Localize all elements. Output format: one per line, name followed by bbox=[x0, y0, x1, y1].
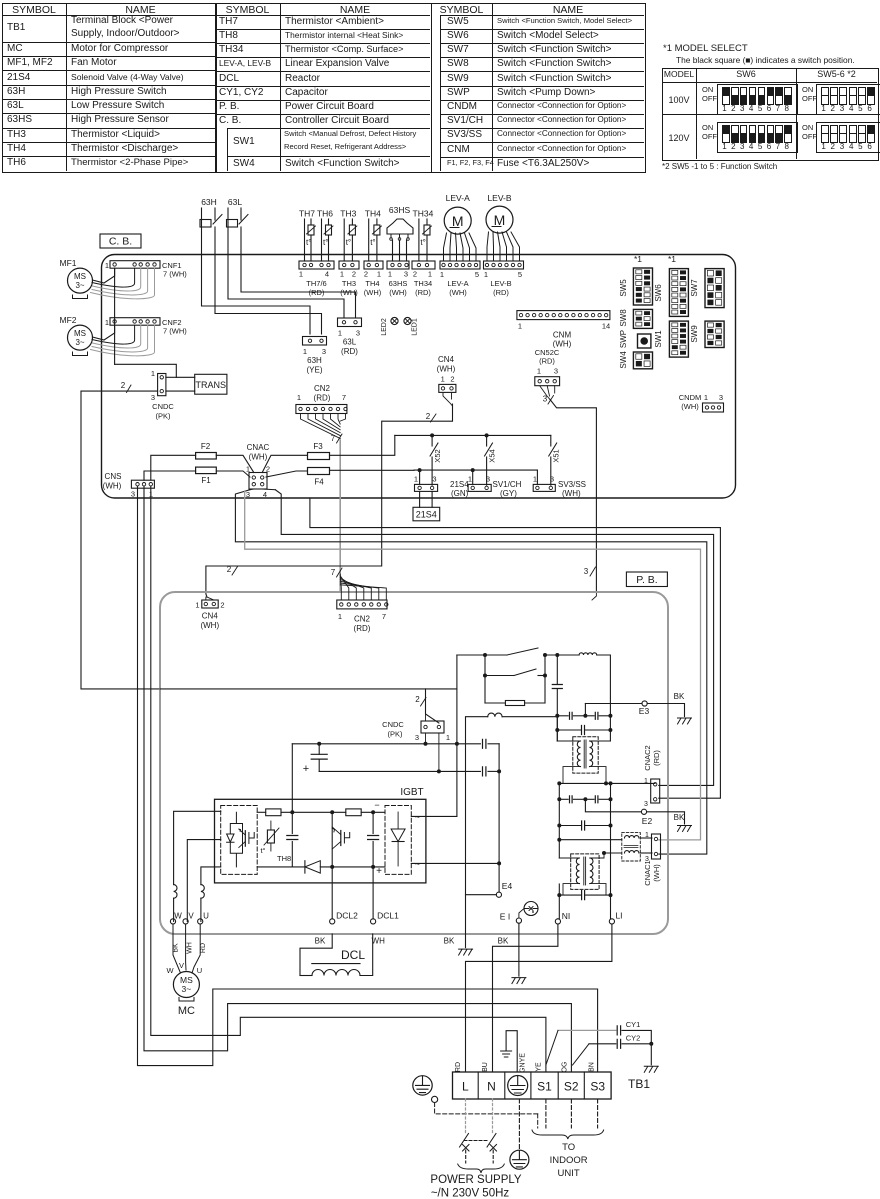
switch SW7 bbox=[690, 269, 724, 308]
svg-text:1: 1 bbox=[297, 393, 301, 402]
svg-text:YE: YE bbox=[536, 1062, 543, 1072]
wire bundle C.B. to CNAC1/CNAC2 corner bbox=[235, 490, 720, 854]
svg-text:(WH): (WH) bbox=[652, 864, 661, 882]
svg-text:3: 3 bbox=[356, 329, 360, 338]
svg-text:~/N 230V 50Hz: ~/N 230V 50Hz bbox=[431, 1188, 510, 1199]
svg-text:1: 1 bbox=[340, 270, 344, 279]
breaker switch in power supply bbox=[460, 1134, 497, 1164]
label P. B. bbox=[626, 572, 667, 587]
svg-text:1: 1 bbox=[105, 318, 109, 327]
pressure switch 63L bbox=[227, 197, 249, 255]
svg-text:DCL2: DCL2 bbox=[336, 911, 358, 921]
wire R2 to minus rail bbox=[361, 800, 385, 814]
common mode choke L3 dashed to CNAC1 bbox=[557, 833, 652, 861]
svg-text:(PK): (PK) bbox=[156, 412, 172, 421]
svg-text:WH: WH bbox=[186, 942, 193, 954]
svg-text:7: 7 bbox=[342, 393, 346, 402]
legend table group 2 bbox=[0, 0, 880, 1]
wire IGBT top rail bbox=[257, 810, 346, 814]
svg-text:63H: 63H bbox=[201, 197, 217, 207]
svg-text:INDOOR: INDOOR bbox=[550, 1155, 588, 1166]
svg-text:TH7: TH7 bbox=[299, 209, 315, 219]
GNYE earth jumper bbox=[501, 1031, 518, 1072]
wire CN52C to P.B. CN52C bbox=[540, 386, 597, 600]
connector CNM (WH) bbox=[517, 311, 610, 349]
svg-text:MF2: MF2 bbox=[60, 315, 77, 325]
wire LI to terminal L bbox=[466, 924, 612, 1072]
svg-text:LEV-B: LEV-B bbox=[487, 193, 511, 203]
capacitor C2 in IGBT bbox=[368, 812, 382, 877]
switch SW5 bbox=[619, 268, 653, 305]
controller circuit board C.B. outline bbox=[102, 255, 736, 499]
capacitor C3 across line bbox=[552, 655, 562, 716]
terminal E2 bbox=[585, 799, 652, 826]
thermistor TH7 bbox=[299, 209, 316, 262]
connector CNAC (WH) bbox=[246, 443, 270, 499]
switch SW8 bbox=[619, 309, 653, 329]
arrester symbol bbox=[524, 902, 538, 916]
power supply earth symbol bbox=[510, 1150, 529, 1169]
switch SW1 bbox=[654, 321, 688, 357]
wire 7-bundle CN2 fan down bbox=[301, 414, 346, 439]
terminal W on P.B. bbox=[170, 912, 182, 925]
svg-text:L: L bbox=[462, 1080, 469, 1094]
transformer TRANS bbox=[195, 374, 227, 394]
svg-text:63HS: 63HS bbox=[389, 279, 408, 288]
svg-text:t°: t° bbox=[323, 238, 328, 247]
svg-text:CNM: CNM bbox=[553, 331, 572, 340]
svg-text:1: 1 bbox=[388, 270, 392, 279]
svg-text:CNAC1: CNAC1 bbox=[643, 860, 652, 885]
wire CNDC pin3 to TRANS bbox=[166, 390, 195, 392]
connector 21S4 (GN) bbox=[414, 470, 469, 498]
reactor DCL bbox=[300, 934, 385, 976]
connector SV1/CH (GY) bbox=[468, 470, 522, 498]
svg-text:1: 1 bbox=[151, 369, 155, 378]
svg-text:3: 3 bbox=[246, 490, 250, 499]
svg-text:U: U bbox=[203, 912, 209, 921]
svg-text:(WH): (WH) bbox=[364, 288, 382, 297]
resistor R1 on IGBT gate rail bbox=[266, 809, 281, 816]
relay bus upper bbox=[395, 433, 551, 437]
svg-text:1: 1 bbox=[537, 367, 541, 376]
svg-text:CN2: CN2 bbox=[354, 615, 371, 624]
svg-text:SW5: SW5 bbox=[619, 279, 628, 297]
capacitor C6 across line bbox=[555, 716, 612, 735]
svg-text:2: 2 bbox=[450, 375, 454, 384]
svg-text:LED2: LED2 bbox=[381, 318, 388, 336]
dashed wires below S1 S2 S3 bbox=[546, 1099, 598, 1128]
rectifier module dashed bbox=[385, 806, 420, 875]
svg-text:3: 3 bbox=[486, 474, 490, 483]
relay contact X54 bbox=[485, 435, 497, 485]
svg-text:(YE): (YE) bbox=[307, 366, 323, 375]
svg-text:N: N bbox=[487, 1080, 496, 1094]
svg-text:3~: 3~ bbox=[75, 338, 84, 347]
svg-text:4: 4 bbox=[263, 490, 267, 499]
svg-text:(WH): (WH) bbox=[200, 621, 219, 630]
ground for E2 bbox=[678, 826, 692, 832]
svg-text:CN2: CN2 bbox=[314, 384, 331, 393]
capacitor C7 C8 Y-caps 2 bbox=[557, 796, 612, 803]
connector CNF1 (WH) bbox=[105, 261, 187, 279]
svg-text:DCL1: DCL1 bbox=[377, 911, 399, 921]
svg-text:F3: F3 bbox=[313, 442, 323, 451]
wire 63L to connector 63L(RD) bbox=[228, 255, 356, 319]
IGBT transistor Q2 bbox=[332, 812, 350, 867]
dashed earth run right side bbox=[537, 1114, 539, 1128]
svg-text:3: 3 bbox=[432, 474, 436, 483]
wire gray CN2 bundle down to P.B. bbox=[331, 434, 342, 592]
relay bus lower bbox=[414, 468, 537, 472]
wire row CNAC2 pin1 bbox=[557, 781, 655, 799]
svg-text:3: 3 bbox=[550, 474, 554, 483]
svg-text:14: 14 bbox=[602, 322, 610, 331]
svg-text:1: 1 bbox=[704, 393, 708, 402]
svg-text:BK: BK bbox=[674, 692, 685, 701]
transformer T1 dashed bbox=[557, 730, 610, 783]
svg-text:U: U bbox=[197, 966, 202, 975]
svg-text:1: 1 bbox=[446, 733, 450, 742]
switch SW9 bbox=[690, 321, 724, 347]
legend table group 1 bbox=[0, 0, 880, 1]
connector TH4 (WH) bbox=[364, 261, 383, 297]
svg-text:3: 3 bbox=[719, 393, 723, 402]
connector CN2 (RD) on P.B. bbox=[337, 574, 388, 633]
svg-text:SW7: SW7 bbox=[690, 279, 699, 297]
svg-text:BK: BK bbox=[173, 943, 180, 953]
svg-text:TH6: TH6 bbox=[317, 209, 333, 219]
terminal LI bbox=[609, 911, 622, 924]
fan motor MF2 bbox=[60, 315, 93, 356]
svg-text:1: 1 bbox=[105, 261, 109, 270]
svg-text:1: 1 bbox=[338, 329, 342, 338]
svg-text:LI: LI bbox=[615, 911, 622, 921]
wire F1 to CNAC pin1 lower bbox=[216, 471, 250, 477]
svg-text:2: 2 bbox=[426, 412, 431, 421]
terminal block TB1 bbox=[453, 1072, 651, 1099]
svg-text:RD: RD bbox=[200, 943, 207, 953]
wire CNAC pin2 to F3 F4 bbox=[262, 455, 307, 477]
svg-text:5: 5 bbox=[475, 270, 479, 279]
fuse F3 bbox=[308, 442, 330, 460]
wire CNS to fuses F1 F2 bbox=[144, 455, 196, 480]
svg-text:MS: MS bbox=[74, 329, 86, 338]
wire 63H to connector 63H(YE) bbox=[202, 255, 322, 335]
connector CN2 (RD) on C.B. bbox=[296, 384, 347, 414]
resistor R2 in IGBT bbox=[346, 809, 361, 816]
svg-text:(WH): (WH) bbox=[389, 288, 407, 297]
svg-text:(WH): (WH) bbox=[103, 482, 122, 491]
svg-text:V: V bbox=[188, 912, 194, 921]
svg-text:3: 3 bbox=[131, 490, 135, 499]
wire F2 to CNAC pin1 bbox=[216, 455, 254, 472]
svg-text:3: 3 bbox=[151, 393, 155, 402]
label *1 for SW6 bbox=[668, 254, 676, 264]
svg-text:POWER SUPPLY: POWER SUPPLY bbox=[430, 1174, 521, 1186]
svg-text:63H: 63H bbox=[307, 356, 322, 365]
switch SW4 bbox=[619, 351, 653, 369]
svg-text:t°: t° bbox=[420, 238, 425, 247]
svg-text:7 (WH): 7 (WH) bbox=[163, 327, 187, 336]
IGBT transistor Q1 bbox=[227, 812, 255, 867]
svg-text:BU: BU bbox=[482, 1062, 489, 1072]
svg-text:t°: t° bbox=[306, 238, 311, 247]
solenoid valve 21S4 box bbox=[413, 491, 440, 520]
capacitor CY2 bbox=[573, 1034, 654, 1066]
svg-text:3: 3 bbox=[543, 395, 548, 404]
inductor L1 choke bbox=[545, 653, 610, 716]
svg-text:(RD): (RD) bbox=[354, 624, 371, 633]
svg-text:(RD): (RD) bbox=[493, 288, 509, 297]
svg-text:21S4: 21S4 bbox=[450, 480, 469, 489]
terminal V on P.B. bbox=[183, 912, 194, 925]
wire 2-bundle CNDC to left bbox=[81, 391, 160, 689]
IGBT drive module dashed bbox=[221, 806, 258, 875]
svg-text:3: 3 bbox=[554, 367, 558, 376]
ground for CY capacitors bbox=[644, 1044, 658, 1073]
svg-text:LEV-B: LEV-B bbox=[490, 279, 511, 288]
svg-text:E I: E I bbox=[500, 912, 510, 922]
svg-text:MC: MC bbox=[178, 1005, 195, 1017]
wire E3 to ground BK bbox=[647, 692, 685, 716]
svg-text:(WH): (WH) bbox=[681, 402, 699, 411]
electrolytic capacitor + on P.B. bbox=[292, 733, 501, 812]
svg-text:2: 2 bbox=[227, 565, 232, 574]
svg-text:F4: F4 bbox=[314, 478, 324, 487]
wire E4 BK ground below P.B. bbox=[459, 949, 473, 955]
wire CNAC pin3 pin4 stubs bbox=[250, 488, 275, 491]
svg-text:7 (WH): 7 (WH) bbox=[163, 270, 187, 279]
thermistor TH6 bbox=[317, 209, 333, 262]
svg-text:CY2: CY2 bbox=[626, 1034, 641, 1043]
wire relay feed horizontal bbox=[160, 688, 457, 690]
svg-text:S2: S2 bbox=[564, 1080, 579, 1094]
wires MF1 to CNF1 bbox=[91, 268, 155, 299]
svg-text:UNIT: UNIT bbox=[558, 1168, 580, 1179]
svg-text:3~: 3~ bbox=[75, 281, 84, 290]
svg-text:TH3: TH3 bbox=[340, 209, 356, 219]
wire labels TB1 bbox=[455, 1053, 596, 1073]
svg-text:(RD): (RD) bbox=[314, 394, 331, 403]
dashed wire below earth to supply ground bbox=[518, 1099, 520, 1149]
connector TH34 (RD) bbox=[412, 261, 435, 297]
svg-text:1: 1 bbox=[518, 322, 522, 331]
capacitor C9 across line bbox=[557, 799, 612, 839]
connector CNAC1 (WH) bbox=[643, 832, 661, 886]
terminal U on P.B. bbox=[198, 912, 210, 925]
svg-text:(WH): (WH) bbox=[340, 288, 358, 297]
terminal EI bbox=[500, 909, 524, 924]
svg-text:CN4: CN4 bbox=[438, 355, 455, 364]
connector 63H (YE) bbox=[303, 337, 327, 375]
svg-text:7: 7 bbox=[331, 434, 336, 443]
svg-text:WH: WH bbox=[372, 937, 386, 946]
svg-text:W: W bbox=[174, 912, 182, 921]
svg-text:(PK): (PK) bbox=[388, 730, 404, 739]
svg-text:(WH): (WH) bbox=[249, 453, 268, 462]
svg-text:BK: BK bbox=[674, 813, 685, 822]
wires MF2 to CNF2 bbox=[91, 325, 155, 356]
svg-text:(WH): (WH) bbox=[562, 489, 581, 498]
thermistor TH34 bbox=[413, 209, 434, 262]
svg-text:SWP: SWP bbox=[619, 330, 628, 348]
connector CNDM (WH) bbox=[679, 393, 724, 412]
svg-text:(RD): (RD) bbox=[415, 288, 431, 297]
svg-text:CNDM: CNDM bbox=[679, 393, 702, 402]
svg-text:1: 1 bbox=[428, 270, 432, 279]
fan motor MF1 bbox=[60, 258, 93, 299]
svg-text:TH34: TH34 bbox=[413, 209, 434, 219]
svg-text:1: 1 bbox=[377, 270, 381, 279]
svg-text:SW8: SW8 bbox=[619, 309, 628, 327]
fuse F1 bbox=[196, 467, 217, 485]
transformer T2 dashed bbox=[559, 840, 606, 895]
svg-text:63HS: 63HS bbox=[389, 205, 411, 215]
model select table bbox=[0, 0, 880, 1]
connector 63HS (WH) bbox=[387, 261, 409, 297]
svg-text:CN4: CN4 bbox=[202, 611, 219, 620]
svg-text:M: M bbox=[494, 212, 506, 228]
wire DC rails to IGBT bbox=[411, 733, 499, 863]
svg-text:3: 3 bbox=[644, 801, 648, 808]
pressure sensor 63HS bbox=[387, 205, 413, 261]
svg-text:2: 2 bbox=[415, 695, 420, 704]
svg-text:1: 1 bbox=[533, 474, 537, 483]
svg-text:~: ~ bbox=[415, 859, 420, 869]
wire E2 to ground BK bbox=[647, 812, 685, 824]
svg-text:(RD): (RD) bbox=[341, 347, 358, 356]
svg-text:BN: BN bbox=[589, 1062, 596, 1072]
svg-text:W: W bbox=[166, 966, 174, 975]
svg-text:(GN): (GN) bbox=[451, 489, 469, 498]
wire count 2 marker CNDC bbox=[121, 381, 131, 393]
pressure switch 63H bbox=[200, 197, 222, 255]
IGBT module block bbox=[215, 787, 426, 883]
terminal E3 bbox=[585, 701, 649, 716]
svg-text:MS: MS bbox=[74, 272, 86, 281]
earth circle left of TB1 bbox=[413, 1076, 432, 1095]
svg-text:CNS: CNS bbox=[105, 472, 122, 481]
connector TH3 (WH) bbox=[339, 261, 359, 297]
ground for E3 bbox=[678, 718, 692, 724]
svg-text:TH4: TH4 bbox=[365, 209, 381, 219]
svg-text:(RD): (RD) bbox=[309, 288, 325, 297]
svg-text:2: 2 bbox=[413, 270, 417, 279]
wire W V U to compressor motor bbox=[166, 924, 207, 975]
fuse F4 bbox=[308, 468, 330, 487]
svg-text:X52: X52 bbox=[433, 449, 442, 462]
svg-text:3~: 3~ bbox=[182, 984, 192, 994]
connector CN52C (RD) on C.B. bbox=[535, 348, 560, 386]
svg-text:t°: t° bbox=[346, 238, 351, 247]
svg-text:TH7/6: TH7/6 bbox=[306, 279, 326, 288]
power circuit board P.B. outline bbox=[160, 592, 668, 934]
current sensor coil on U phase bbox=[201, 885, 204, 922]
label C. B. bbox=[100, 234, 141, 248]
svg-text:(WH): (WH) bbox=[449, 288, 467, 297]
svg-text:C. B.: C. B. bbox=[109, 236, 132, 248]
svg-text:7: 7 bbox=[331, 568, 336, 577]
connector LEV-A (WH) bbox=[440, 261, 480, 297]
wire F3 to relay bus bbox=[330, 435, 395, 455]
terminal E4 bbox=[496, 744, 512, 898]
svg-text:1: 1 bbox=[303, 347, 307, 356]
thermistor TH3 bbox=[340, 209, 357, 262]
svg-text:GNYE: GNYE bbox=[520, 1053, 527, 1073]
connector CN4 (WH) on C.B. bbox=[437, 355, 456, 392]
svg-text:BK: BK bbox=[315, 937, 326, 946]
svg-text:LEV-A: LEV-A bbox=[446, 193, 470, 203]
svg-text:63L: 63L bbox=[343, 338, 357, 347]
svg-text:2: 2 bbox=[121, 381, 126, 390]
capacitor C1 in IGBT bbox=[287, 812, 298, 867]
wire IGBT phase outputs to W V U bbox=[174, 811, 221, 921]
svg-text:OG: OG bbox=[562, 1062, 569, 1073]
svg-text:TH34: TH34 bbox=[414, 279, 432, 288]
svg-text:TH3: TH3 bbox=[342, 279, 356, 288]
svg-text:SW9: SW9 bbox=[690, 325, 699, 343]
svg-text:F2: F2 bbox=[201, 442, 211, 451]
wire 2-bundle CN4 to P.B. CN4 bbox=[206, 392, 453, 597]
svg-text:1: 1 bbox=[299, 270, 303, 279]
svg-text:CNDC: CNDC bbox=[382, 720, 404, 729]
terminal DCL2 bbox=[330, 911, 359, 925]
compressor motor MC bbox=[173, 972, 199, 1018]
svg-text:CNAC2: CNAC2 bbox=[643, 745, 652, 770]
svg-text:X54: X54 bbox=[488, 449, 497, 462]
thermistor TH4 bbox=[365, 209, 382, 262]
svg-text:(WH): (WH) bbox=[437, 365, 456, 374]
connector CNF2 (WH) bbox=[105, 318, 187, 336]
connector 63L (RD) bbox=[338, 318, 362, 356]
terminal NI bbox=[555, 717, 570, 924]
wire EI down to ground BK bbox=[498, 924, 526, 984]
earth symbol in TB1 bbox=[508, 1076, 528, 1096]
capacitor C10 bottom bbox=[557, 826, 612, 919]
svg-text:LEV-A: LEV-A bbox=[447, 279, 468, 288]
svg-text:3: 3 bbox=[322, 347, 326, 356]
svg-text:E4: E4 bbox=[502, 881, 513, 891]
connector CNDC (PK) on P.B. bbox=[382, 689, 450, 742]
switch SW6 bbox=[654, 269, 688, 317]
svg-text:SW6: SW6 bbox=[654, 284, 663, 302]
current sensor coil on W phase bbox=[174, 885, 177, 922]
svg-text:M: M bbox=[452, 213, 464, 229]
wire NI to terminal N bbox=[493, 924, 558, 1072]
svg-text:TH8: TH8 bbox=[277, 854, 291, 863]
connector CNAC2 (RD) bbox=[643, 745, 661, 808]
svg-text:SW4: SW4 bbox=[619, 351, 628, 369]
wire DCL1 from plus rail bbox=[372, 867, 374, 919]
svg-text:1: 1 bbox=[440, 270, 444, 279]
svg-text:*1: *1 bbox=[634, 254, 642, 264]
svg-text:TB1: TB1 bbox=[628, 1077, 650, 1091]
LED2 indicator bbox=[381, 317, 398, 335]
svg-text:2: 2 bbox=[364, 270, 368, 279]
svg-text:*1: *1 bbox=[668, 254, 676, 264]
motor LEV-B bbox=[486, 193, 513, 233]
resistor R3 inrush bbox=[485, 676, 545, 706]
svg-text:CY1: CY1 bbox=[626, 1020, 641, 1029]
svg-text:F1: F1 bbox=[201, 476, 211, 485]
svg-text:LED1: LED1 bbox=[412, 318, 419, 336]
svg-text:−: − bbox=[374, 800, 379, 810]
label *1 for SW5 bbox=[634, 254, 642, 264]
svg-text:BK: BK bbox=[444, 937, 455, 946]
wire CNS staircase to S1 bbox=[151, 486, 546, 1072]
relay contact X52 bbox=[430, 435, 442, 485]
